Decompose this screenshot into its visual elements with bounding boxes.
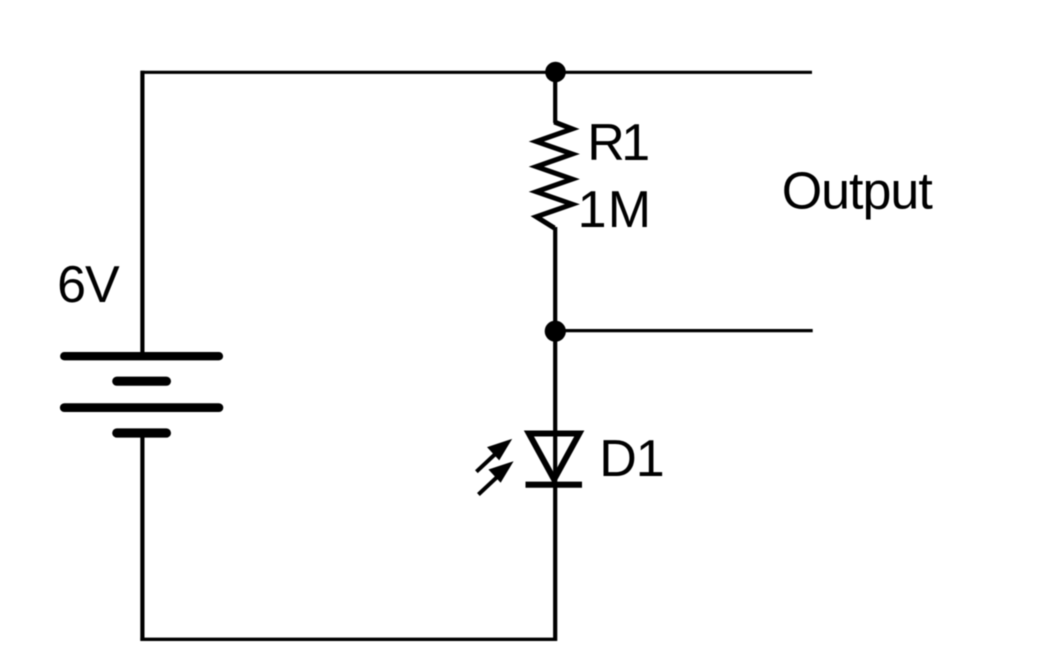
svg-text:Output: Output	[782, 163, 934, 221]
svg-text:6V: 6V	[57, 256, 120, 314]
svg-text:D1: D1	[599, 430, 663, 488]
svg-text:R1: R1	[587, 114, 648, 172]
svg-text:1M: 1M	[578, 181, 653, 239]
